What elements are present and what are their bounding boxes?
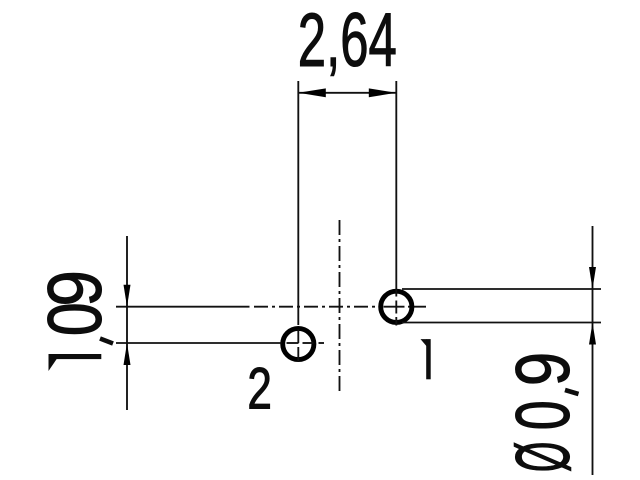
- arrowhead right of dimension 2,64: [369, 88, 397, 97]
- pad 2 horizontal center mark dash right: [319, 342, 325, 344]
- extension line top tangent of pad 1 to the right: [402, 288, 601, 290]
- svg-text:Ø: Ø: [500, 441, 585, 472]
- label 1 (pad 1): stem: [426, 339, 431, 379]
- arrowhead up onto bottom tangent: [589, 323, 596, 345]
- horizontal centerline dash-dot portion: [254, 306, 379, 308]
- horizontal centerline dash right of pad 1: [408, 306, 426, 308]
- horizontal centerline solid left portion: [116, 306, 250, 308]
- arrowhead down onto centerline (1,09): [124, 285, 131, 307]
- pad 1 vertical center mark lower dash: [395, 317, 397, 326]
- svg-text:9: 9: [33, 270, 118, 307]
- pad 1 vertical center mark dash: [395, 301, 397, 314]
- arrowhead down onto top tangent: [589, 267, 596, 289]
- arrowhead left of dimension 2,64: [298, 88, 326, 97]
- pad 2 horizontal center mark dash: [287, 342, 299, 344]
- dimension text 1,09 (rotated): digit 1 stem: [49, 354, 102, 359]
- pad 2 vertical center mark dash: [297, 330, 299, 344]
- dimension line diameter 0,9 (vertical, right): [592, 226, 594, 475]
- extension line from pad 1 up to dimension 2,64: [395, 81, 397, 297]
- horizontal centerline dash through pad 1 center: [384, 306, 405, 308]
- vertical centerline (dash-dot, middle of drawing): [339, 220, 341, 392]
- pad 2 horizontal center mark dash 2: [303, 342, 314, 344]
- extension line bottom tangent of pad 1 to the right: [402, 322, 601, 324]
- extension line from pad 2 center to the left: [116, 342, 282, 344]
- pad 2 circle: [283, 328, 314, 359]
- svg-text:9: 9: [500, 352, 586, 386]
- svg-text:2: 2: [247, 356, 272, 421]
- svg-text:0: 0: [500, 400, 585, 430]
- dimension text diameter 0,9: comma: [564, 388, 579, 396]
- label 1 (pad 1): flag: [421, 339, 427, 346]
- arrowhead up onto pad2 line (1,09): [124, 343, 131, 365]
- dimension text 1,09: digit 1 flag: [49, 358, 58, 371]
- pad 1 circle: [381, 291, 412, 322]
- dimension line 2,64: [298, 92, 396, 94]
- extension line from pad 2 up to dimension 2,64: [297, 81, 299, 325]
- pad 2 vertical center mark lower dash: [297, 347, 299, 362]
- svg-text:2,64: 2,64: [298, 0, 397, 82]
- dimension text 1,09: comma: [99, 336, 114, 345]
- dimension line 1,09 (vertical, left): [126, 236, 128, 410]
